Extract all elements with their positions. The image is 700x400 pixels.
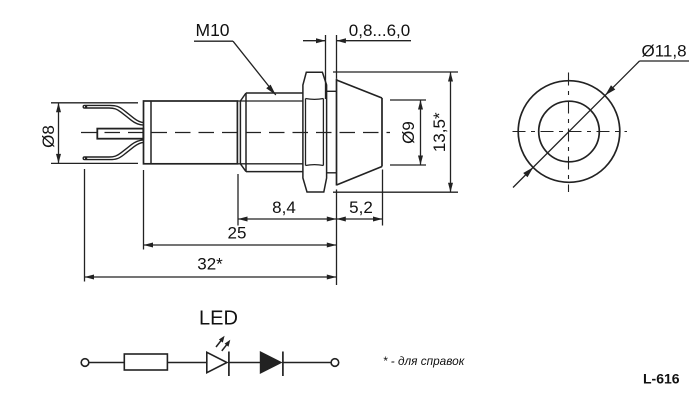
svg-text:* - для справок: * - для справок [383,354,465,368]
hex nut [303,72,327,192]
shared extension line below lens flange [336,190,338,286]
terminal pin bottom [83,140,143,160]
body cylinder [144,101,238,164]
svg-text:25: 25 [228,224,247,243]
schematic: right terminal [331,359,339,367]
wire [229,362,261,364]
svg-text:0,8...6,0: 0,8...6,0 [349,21,410,40]
svg-text:L-616: L-616 [643,371,680,387]
svg-text:32*: 32* [197,255,223,274]
dimension 32* [85,169,337,282]
dimension 8,4 [238,174,337,226]
LED light arrow 1 [216,336,225,347]
svg-text:Ø9: Ø9 [399,121,418,144]
LED cathode bar [228,352,230,377]
resistor R [124,354,167,370]
front view horizontal centerline [513,131,628,133]
lens cone [337,79,383,186]
svg-text:5,2: 5,2 [349,198,373,217]
LED light arrow 2 [222,340,231,351]
front view vertical centerline [568,73,570,193]
front view outer circle [518,81,620,183]
thread M10 section [237,93,303,172]
center tab terminal [97,129,143,139]
protection diode [261,352,281,372]
dimension Ø8 [51,103,138,164]
svg-text:Ø8: Ø8 [39,125,58,148]
body left cap line [150,101,152,164]
wire [89,362,125,364]
svg-text:13,5*: 13,5* [430,112,449,152]
dimension Ø9 [390,100,426,165]
neck between nut and lens flange [327,90,337,92]
dimension 5,2 [337,170,383,226]
front view inner circle [539,101,600,162]
dimension 13,5* [333,72,458,192]
wire [167,362,206,364]
svg-text:LED: LED [199,308,238,330]
centerline (side view axis) [81,132,390,134]
schematic: left terminal [81,359,89,367]
wire [283,362,331,364]
LED symbol [207,352,227,372]
terminal pin top [83,105,143,125]
svg-text:M10: M10 [196,20,230,40]
dimension Ø11,8 leader [513,61,689,188]
svg-text:8,4: 8,4 [272,198,296,217]
dimension 25 [144,170,337,250]
svg-text:Ø11,8: Ø11,8 [642,41,687,60]
dimension 0,8...6,0 [303,35,411,99]
diode cathode bar [282,352,284,377]
